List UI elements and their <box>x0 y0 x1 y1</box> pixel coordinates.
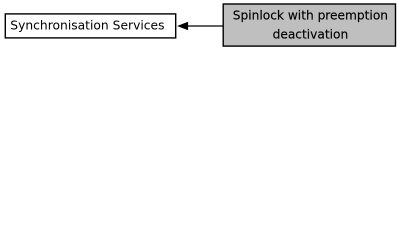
svg-text:deactivation: deactivation <box>273 28 349 42</box>
svg-text:Synchronisation Services: Synchronisation Services <box>10 18 164 32</box>
svg-text:Spinlock with preemption: Spinlock with preemption <box>233 8 388 22</box>
